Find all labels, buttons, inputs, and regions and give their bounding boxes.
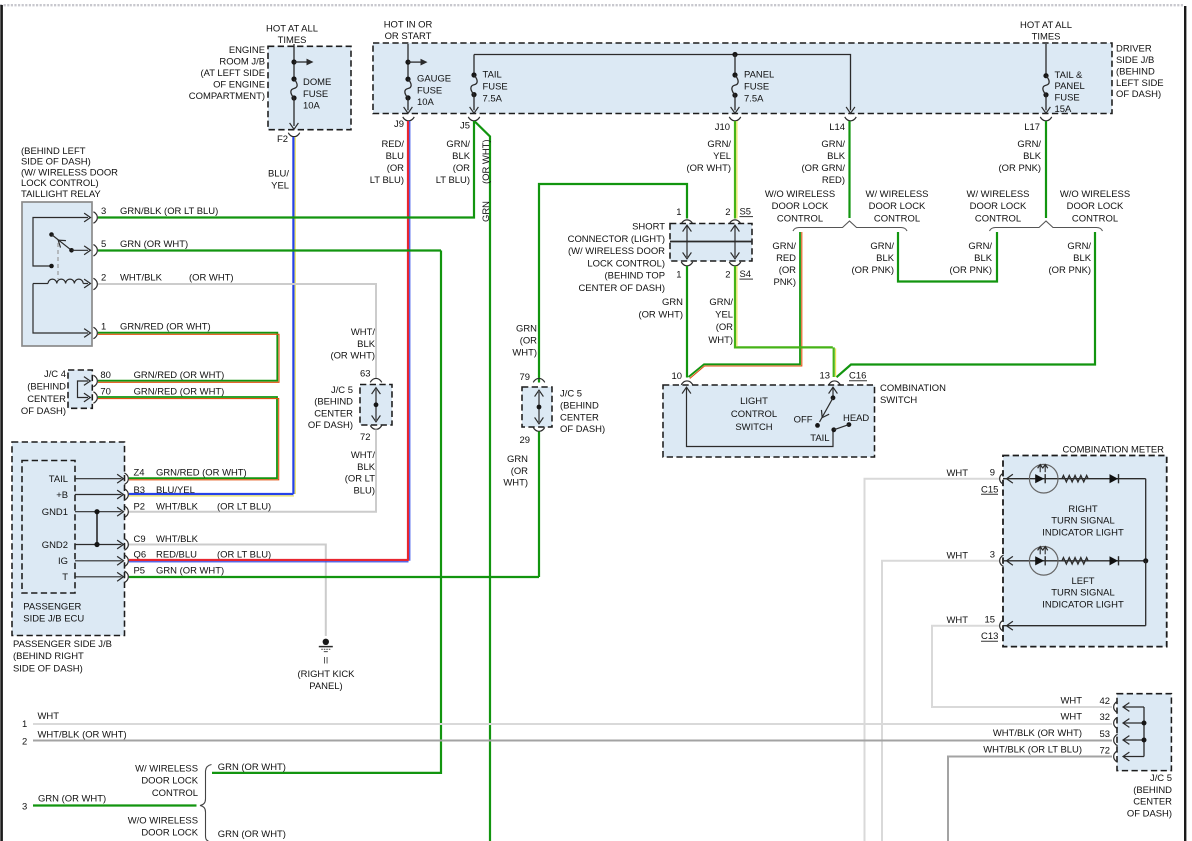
- label GRN/BLK (OR LT BLU) relay pin3: [120, 206, 218, 217]
- svg-text:TIMES: TIMES: [278, 35, 307, 46]
- label WHT/BLK at C9: [156, 534, 199, 545]
- svg-text:(OR WHT): (OR WHT): [481, 139, 492, 184]
- label pin 63: [360, 369, 371, 380]
- label TAIL: [810, 433, 829, 444]
- svg-text:BLK: BLK: [876, 253, 895, 264]
- wire tail fuse output to J5: [470, 95, 479, 114]
- svg-text:CENTER: CENTER: [314, 408, 353, 419]
- svg-text:W/ WIRELESS: W/ WIRELESS: [135, 764, 198, 775]
- wire RED/BLU Q6 run: [129, 560, 409, 562]
- svg-text:GRN/: GRN/: [709, 297, 733, 308]
- svg-text:15: 15: [985, 614, 996, 625]
- label pin 15: [985, 614, 996, 625]
- svg-text:(OR: (OR: [716, 322, 733, 333]
- connector L14 cup: [845, 117, 856, 121]
- svg-text:DOOR LOCK: DOOR LOCK: [772, 201, 829, 212]
- label BLU/YEL at F2 wire: [268, 169, 289, 192]
- svg-text:OF DASH): OF DASH): [560, 424, 605, 435]
- junction connector J/C 5 bottom-right box: [1117, 694, 1171, 771]
- svg-text:7.5A: 7.5A: [744, 93, 764, 104]
- short connector internal bus: [670, 241, 752, 243]
- svg-text:(OR: (OR: [511, 466, 528, 477]
- label RIGHT TURN SIGNAL INDICATOR LIGHT: [1042, 504, 1124, 538]
- connector pin 42 cup: [1114, 701, 1118, 712]
- short connector pin2 arrows: [731, 225, 740, 259]
- svg-text:WHT: WHT: [947, 550, 969, 561]
- svg-text:F2: F2: [277, 134, 288, 145]
- label P5: [134, 566, 146, 577]
- label TAIL (pin): [49, 474, 68, 485]
- label S5: [740, 207, 754, 218]
- svg-text:TAIL: TAIL: [483, 69, 502, 80]
- label ground II: [323, 656, 328, 667]
- svg-text:13: 13: [820, 371, 831, 382]
- svg-text:J9: J9: [394, 119, 404, 130]
- svg-text:SWITCH: SWITCH: [735, 422, 772, 433]
- svg-text:GRN/: GRN/: [446, 139, 470, 150]
- svg-text:CONTROL: CONTROL: [152, 788, 198, 799]
- J/C5 left internal arrows: [372, 388, 381, 422]
- svg-text:(OR PNK): (OR PNK): [999, 163, 1041, 174]
- svg-text:GRN/: GRN/: [821, 139, 845, 150]
- svg-text:GRN/: GRN/: [1017, 139, 1041, 150]
- label Q6: [134, 550, 147, 561]
- svg-text:BLK: BLK: [452, 151, 471, 162]
- svg-text:3: 3: [22, 802, 27, 813]
- svg-text:LT BLU): LT BLU): [370, 175, 404, 186]
- svg-text:BLK: BLK: [357, 462, 376, 473]
- label pin 2 (S5): [725, 207, 730, 218]
- svg-text:P2: P2: [134, 501, 146, 512]
- svg-text:(BEHIND: (BEHIND: [27, 381, 66, 392]
- svg-text:OFF: OFF: [794, 414, 813, 425]
- svg-text:C15: C15: [981, 484, 998, 495]
- fuse GAUGE FUSE 10A: [405, 77, 411, 101]
- svg-text:WHT): WHT): [512, 347, 537, 358]
- label B3: [134, 485, 146, 496]
- label WHT/BLK (OR WHT) at J/C5 63: [330, 327, 375, 362]
- svg-text:(BEHIND RIGHT: (BEHIND RIGHT: [13, 651, 84, 662]
- label J5: [460, 120, 470, 131]
- svg-text:GRN/: GRN/: [968, 241, 992, 252]
- svg-text:PANEL): PANEL): [309, 681, 342, 692]
- label pin 72: [360, 432, 371, 443]
- combination meter pin15 internal wire: [1003, 621, 1146, 630]
- label RED/BLU (OR LT BLU) at J9: [370, 139, 405, 186]
- svg-text:DOOR LOCK: DOOR LOCK: [1067, 201, 1124, 212]
- svg-text:(BEHIND: (BEHIND: [1133, 785, 1172, 796]
- connector relay pin 5 cup: [93, 245, 97, 256]
- svg-text:DOOR LOCK: DOOR LOCK: [869, 201, 926, 212]
- wire WHT/BLK circuit 2 run: [33, 740, 1112, 742]
- svg-text:(BEHIND: (BEHIND: [1116, 66, 1155, 77]
- wire GRN (OR WHT) J/C5-29 down to P5: [538, 432, 540, 578]
- svg-text:TAIL: TAIL: [810, 433, 829, 444]
- svg-text:3: 3: [101, 206, 106, 217]
- label GRN (OR WHT) relay pin5: [120, 239, 188, 250]
- svg-text:GRN (OR WHT): GRN (OR WHT): [218, 829, 286, 840]
- svg-text:7.5A: 7.5A: [483, 93, 503, 104]
- svg-text:(OR: (OR: [453, 163, 470, 174]
- connector pin 3 cup (meter): [1000, 555, 1004, 566]
- label WHT circuit 1: [38, 711, 60, 722]
- label pin 80: [100, 370, 111, 381]
- label P2: [134, 501, 146, 512]
- label pin 32: [1100, 712, 1111, 723]
- short connector box: [670, 224, 752, 262]
- svg-text:P5: P5: [134, 566, 146, 577]
- svg-text:RIGHT: RIGHT: [1068, 504, 1098, 515]
- svg-text:SWITCH: SWITCH: [880, 395, 917, 406]
- svg-text:2: 2: [22, 737, 27, 748]
- svg-text:2: 2: [725, 207, 730, 218]
- label PASSENGER SIDE J/B location: [13, 639, 112, 675]
- svg-text:32: 32: [1100, 712, 1111, 723]
- brace L17 splits to w/ and w/o wireless: [990, 221, 1103, 231]
- label C13: [981, 631, 998, 642]
- wire WHT pin3 down page: [882, 561, 999, 841]
- svg-text:HOT AT ALL: HOT AT ALL: [266, 23, 318, 34]
- page top border: [0, 4, 1184, 6]
- label GRN (OR WHT) w/o wireless branch: [218, 829, 286, 840]
- svg-text:HOT IN OR: HOT IN OR: [384, 20, 433, 31]
- label WHT/BLK (OR LT BLU) below J/C5 72: [345, 450, 376, 496]
- label GRN/RED (OR WHT) at pin 70: [134, 386, 225, 397]
- light control switch box: [663, 385, 875, 457]
- connector S5 pin 2 cup: [729, 220, 740, 224]
- connector pin 72 cup: [1114, 751, 1118, 762]
- fuse TAIL & PANEL FUSE 15A: [1043, 73, 1049, 97]
- wire GRN (OR WHT) w/ wireless branch to S4 leg: [212, 771, 441, 774]
- wire WHT/BLK (OR LT BLU) J/C5-72 down to P2: [129, 430, 376, 512]
- svg-text:DOOR LOCK: DOOR LOCK: [141, 828, 198, 839]
- svg-text:(OR WHT): (OR WHT): [330, 351, 375, 362]
- fuse TAIL FUSE 7.5A: [471, 72, 477, 97]
- junction connector J/C 4 box: [68, 370, 92, 408]
- junction block main J/B box: [373, 43, 1112, 114]
- svg-text:15A: 15A: [1055, 104, 1072, 115]
- label WHT/BLK (OR WHT) relay pin2: [120, 273, 234, 284]
- svg-text:ENGINE: ENGINE: [229, 45, 265, 56]
- label pin 53: [1100, 729, 1111, 740]
- label GRN/RED (OR WHT) at pin 80: [134, 370, 225, 381]
- brace circuit 3 splits w/ and w/o wireless: [200, 765, 212, 841]
- svg-text:OF DASH): OF DASH): [21, 406, 66, 417]
- label IG (pin): [58, 556, 68, 567]
- label GND1 (pin): [42, 507, 68, 518]
- svg-text:WHT: WHT: [38, 711, 60, 722]
- svg-text:DOOR LOCK: DOOR LOCK: [970, 201, 1027, 212]
- svg-text:OF ENGINE: OF ENGINE: [213, 80, 265, 91]
- svg-text:WHT/BLK (OR WHT): WHT/BLK (OR WHT): [993, 728, 1082, 739]
- label PASSENGER SIDE J/B ECU: [23, 602, 84, 625]
- svg-text:9: 9: [990, 467, 995, 478]
- connector B3 cup: [124, 489, 128, 500]
- svg-text:CONTROL: CONTROL: [874, 213, 920, 224]
- passenger side J/B ECU inner box: [22, 461, 75, 594]
- svg-text:(OR LT BLU): (OR LT BLU): [217, 501, 271, 512]
- bus tap arrow (engine room J/B): [294, 59, 314, 66]
- svg-text:J/C 5: J/C 5: [560, 389, 582, 400]
- label WHT/BLK (OR WHT) circuit 2: [38, 730, 127, 741]
- label GRN (OR WHT) at P5: [156, 566, 224, 577]
- connector P5 cup: [124, 571, 128, 582]
- connector C15 pin 9 cup: [1000, 473, 1004, 484]
- svg-text:(OR WHT): (OR WHT): [638, 309, 683, 320]
- label DOME FUSE 10A: [303, 77, 331, 111]
- svg-text:(OR WHT): (OR WHT): [189, 273, 234, 284]
- svg-text:GRN/RED (OR WHT): GRN/RED (OR WHT): [156, 468, 247, 479]
- svg-text:J/C 5: J/C 5: [1150, 773, 1172, 784]
- svg-text:(OR GRN/: (OR GRN/: [801, 163, 845, 174]
- svg-text:FUSE: FUSE: [303, 89, 328, 100]
- svg-text:WHT: WHT: [947, 468, 969, 479]
- label GRN (OR WHT) below S4: [638, 297, 683, 320]
- relay lower fixed contact dot: [49, 264, 54, 269]
- svg-text:CONTROL: CONTROL: [975, 213, 1021, 224]
- label circuit 2: [22, 737, 27, 748]
- svg-text:DOOR LOCK: DOOR LOCK: [141, 776, 198, 787]
- svg-text:BLK: BLK: [1023, 151, 1042, 162]
- ECU pin GND1 arrow: [75, 507, 124, 516]
- wire GRN/BLK J5 to relay pin 3 (vertical+horizontal): [98, 121, 474, 218]
- svg-text:DOME: DOME: [303, 77, 331, 88]
- svg-text:LT BLU): LT BLU): [436, 175, 470, 186]
- svg-text:1: 1: [22, 719, 27, 730]
- wire GRN (OR WHT) J/C5-79 to S5 pin 1: [539, 184, 687, 383]
- svg-text:10: 10: [672, 371, 683, 382]
- svg-text:YEL: YEL: [271, 181, 289, 192]
- connector C13 pin 15 cup: [1000, 620, 1004, 631]
- node HOT AT ALL TIMES (driver side): [1020, 20, 1072, 43]
- svg-text:1: 1: [676, 270, 681, 281]
- svg-text:YEL: YEL: [713, 151, 731, 162]
- svg-text:C9: C9: [134, 534, 146, 545]
- connector L17 cup: [1040, 117, 1051, 121]
- svg-text:(BEHIND TOP: (BEHIND TOP: [605, 271, 665, 282]
- svg-text:W/O WIRELESS: W/O WIRELESS: [1060, 189, 1130, 200]
- svg-text:GAUGE: GAUGE: [417, 74, 451, 85]
- junction connector J/C 5 left box: [360, 385, 392, 426]
- svg-text:COMBINATION: COMBINATION: [880, 383, 946, 394]
- label pin 29: [520, 435, 531, 446]
- label pin 9: [990, 467, 995, 478]
- label WHT/BLK (OR LT BLU) at P2: [156, 501, 271, 512]
- svg-text:PANEL: PANEL: [744, 69, 774, 80]
- svg-text:CENTER OF DASH): CENTER OF DASH): [578, 283, 665, 294]
- wire GRN (OR WHT) relay pin5 tap down to w/ wireless branch: [440, 251, 442, 773]
- wire GRN/BLK (OR PNK) L17 w/o wireless to switch pin 13: [837, 232, 1096, 377]
- svg-text:TURN SIGNAL: TURN SIGNAL: [1051, 516, 1114, 527]
- svg-text:SIDE OF DASH): SIDE OF DASH): [21, 157, 91, 168]
- switch TAIL-HEAD link: [834, 425, 849, 430]
- wire WHT pin15 to J/C5 42: [932, 626, 1112, 707]
- svg-text:GRN (OR WHT): GRN (OR WHT): [218, 762, 286, 773]
- label WHT at pin 32: [1061, 711, 1083, 722]
- svg-text:TAIL: TAIL: [49, 474, 68, 485]
- connector C16 pin 10 cup: [681, 381, 692, 385]
- svg-text:WHT/BLK: WHT/BLK: [156, 501, 199, 512]
- relay coil: [33, 279, 91, 288]
- connector pin 53 cup: [1114, 734, 1118, 745]
- J/C5 center internal arrows: [535, 390, 544, 424]
- relay armature pivot dot: [69, 248, 74, 253]
- svg-text:GND2: GND2: [42, 540, 68, 551]
- label GRN/BLK (OR PNK) (L17 w/ branch): [950, 241, 993, 276]
- label C9: [134, 534, 146, 545]
- svg-text:INDICATOR LIGHT: INDICATOR LIGHT: [1042, 599, 1124, 610]
- label T (pin): [62, 572, 68, 583]
- svg-text:HEAD: HEAD: [843, 413, 869, 424]
- label COMBINATION METER: [1062, 444, 1164, 455]
- label W/ WIRELESS DOOR LOCK CONTROL (L17 left): [967, 189, 1030, 224]
- relay armature with arrow: [52, 235, 72, 251]
- switch TAIL contact dot: [831, 427, 836, 432]
- label C15: [981, 484, 998, 495]
- label GRN/YEL (OR WHT) at J10: [686, 139, 731, 174]
- fuse DOME FUSE 10A: [291, 76, 297, 100]
- label W/ WIRELESS DOOR LOCK CONTROL (circuit 3): [135, 764, 199, 799]
- label J10: [715, 122, 730, 133]
- svg-text:(AT LEFT SIDE: (AT LEFT SIDE: [200, 68, 265, 79]
- ground (right kick panel): [319, 639, 333, 652]
- svg-text:GRN/: GRN/: [870, 241, 894, 252]
- label WHT/BLK (OR LT BLU) at pin 72: [983, 745, 1082, 756]
- svg-text:BLK: BLK: [974, 253, 993, 264]
- label pin 1 (S5): [676, 207, 681, 218]
- label GRN (OR WHT) w/ wireless branch: [218, 762, 286, 773]
- wire tail fuse top feed: [473, 55, 475, 76]
- svg-text:WHT/BLK (OR WHT): WHT/BLK (OR WHT): [38, 730, 127, 741]
- wire gauge fuse output to J9: [404, 98, 413, 113]
- label DRIVER SIDE J/B location: [1116, 44, 1164, 101]
- svg-text:(OR: (OR: [520, 336, 537, 347]
- label J/C 5 (BEHIND CENTER OF DASH) left: [308, 385, 353, 431]
- svg-text:(W/ WIRELESS DOOR: (W/ WIRELESS DOOR: [568, 246, 665, 257]
- switch HEAD contact dot: [847, 422, 852, 427]
- svg-text:WHT: WHT: [1061, 695, 1083, 706]
- label circuit 3: [22, 802, 27, 813]
- ECU GND1-GND2 link: [94, 509, 99, 547]
- label W/O WIRELESS DOOR LOCK CONTROL (left): [765, 189, 835, 224]
- svg-text:J/C 5: J/C 5: [331, 385, 353, 396]
- label pin 72: [1100, 746, 1111, 757]
- label F2: [277, 134, 288, 145]
- svg-text:TAIL &: TAIL &: [1055, 70, 1084, 81]
- label +B (pin): [56, 490, 68, 501]
- connector C16 pin 13 cup: [829, 381, 840, 385]
- svg-text:DRIVER: DRIVER: [1116, 44, 1152, 55]
- svg-text:FUSE: FUSE: [1055, 93, 1080, 104]
- label pin 79: [520, 372, 531, 383]
- svg-text:FUSE: FUSE: [417, 85, 442, 96]
- svg-text:CONTROL: CONTROL: [731, 409, 777, 420]
- svg-text:LEFT SIDE: LEFT SIDE: [1116, 78, 1164, 89]
- label pin 70: [100, 386, 111, 397]
- label L14: [829, 122, 845, 133]
- svg-text:WHT/BLK: WHT/BLK: [120, 273, 163, 284]
- wire GRN (OR WHT) circuit 3: [33, 804, 197, 806]
- svg-text:WHT): WHT): [708, 335, 733, 346]
- svg-text:CENTER: CENTER: [1133, 797, 1172, 808]
- label GRN (OR WHT) at J/C5 79: [512, 324, 537, 359]
- svg-text:29: 29: [520, 435, 531, 446]
- svg-text:WHT: WHT: [947, 615, 969, 626]
- svg-text:OF DASH): OF DASH): [308, 420, 353, 431]
- svg-text:GRN (OR WHT): GRN (OR WHT): [120, 239, 188, 250]
- svg-text:W/ WIRELESS: W/ WIRELESS: [866, 189, 929, 200]
- svg-text:W/O WIRELESS: W/O WIRELESS: [765, 189, 835, 200]
- label Z4: [134, 468, 145, 479]
- svg-text:W/O WIRELESS: W/O WIRELESS: [128, 816, 198, 827]
- svg-text:T: T: [62, 572, 68, 583]
- svg-text:72: 72: [360, 432, 371, 443]
- label PANEL FUSE 7.5A: [744, 69, 774, 104]
- connector J/C4 pin 70 cup: [93, 392, 97, 403]
- J/C5 BR pin 72 arrow: [1123, 752, 1144, 761]
- label S4: [740, 269, 754, 280]
- label BLU/YEL at B3: [156, 485, 195, 496]
- svg-text:+B: +B: [56, 490, 68, 501]
- relay box: [22, 202, 92, 346]
- svg-text:(BEHIND LEFT: (BEHIND LEFT: [21, 146, 86, 157]
- wire BLU/YEL B3 run: [129, 494, 294, 496]
- svg-text:3: 3: [990, 550, 995, 561]
- svg-text:(OR: (OR: [387, 163, 404, 174]
- combination meter box: [1003, 456, 1167, 647]
- svg-text:BLU/: BLU/: [268, 169, 289, 180]
- label SHORT CONNECTOR (LIGHT) location: [568, 222, 666, 295]
- connector J/C5 pin 63 cup: [370, 378, 381, 382]
- label J/C 5 (BEHIND CENTER OF DASH) bottom-right: [1127, 773, 1172, 819]
- ECU pin GND2 arrow: [75, 540, 124, 549]
- svg-text:GRN (OR WHT): GRN (OR WHT): [156, 566, 224, 577]
- connector J/C5 pin 29 cup: [533, 427, 544, 431]
- svg-text:80: 80: [100, 370, 111, 381]
- svg-text:CENTER: CENTER: [27, 394, 66, 405]
- svg-text:GRN/: GRN/: [772, 241, 796, 252]
- connector J5 cup: [468, 117, 479, 121]
- connector J/C5 pin 79 cup: [533, 378, 544, 382]
- svg-text:GRN/RED (OR WHT): GRN/RED (OR WHT): [134, 370, 225, 381]
- label WHT at pin 9: [947, 468, 969, 479]
- wire WHT/BLK C9 to ground: [129, 545, 326, 637]
- label GND2 (pin): [42, 540, 68, 551]
- connector relay pin 3 cup: [93, 212, 97, 223]
- wire HOT IN OR START feed into gauge fuse: [405, 44, 410, 79]
- connector J9 cup: [403, 117, 414, 121]
- svg-text:(OR: (OR: [779, 265, 796, 276]
- svg-text:CONTROL: CONTROL: [1072, 213, 1118, 224]
- label GRN (OR WHT) circuit 3: [38, 794, 106, 805]
- junction connector J/C 5 center box: [522, 387, 552, 427]
- fuse PANEL FUSE 7.5A: [732, 72, 738, 97]
- connector C9 cup: [124, 539, 128, 550]
- node HOT AT ALL TIMES (engine room): [266, 23, 318, 46]
- svg-text:WHT/: WHT/: [351, 327, 375, 338]
- label TAILLIGHT RELAY location: [21, 146, 118, 200]
- svg-text:79: 79: [520, 372, 531, 383]
- page right border: [1184, 6, 1186, 841]
- svg-text:TURN SIGNAL: TURN SIGNAL: [1051, 588, 1114, 599]
- svg-text:GRN: GRN: [507, 454, 528, 465]
- connector J/C4 pin 80 cup: [93, 375, 97, 386]
- svg-text:SIDE J/B: SIDE J/B: [1116, 55, 1154, 66]
- wire GRN (OR WHT) relay pin5 run: [98, 249, 441, 251]
- wire WHT/BLK relay pin2 to J/C5-63: [98, 284, 376, 378]
- wire GRN (OR WHT) J5 branch down page: [475, 122, 490, 841]
- svg-text:10A: 10A: [417, 97, 434, 108]
